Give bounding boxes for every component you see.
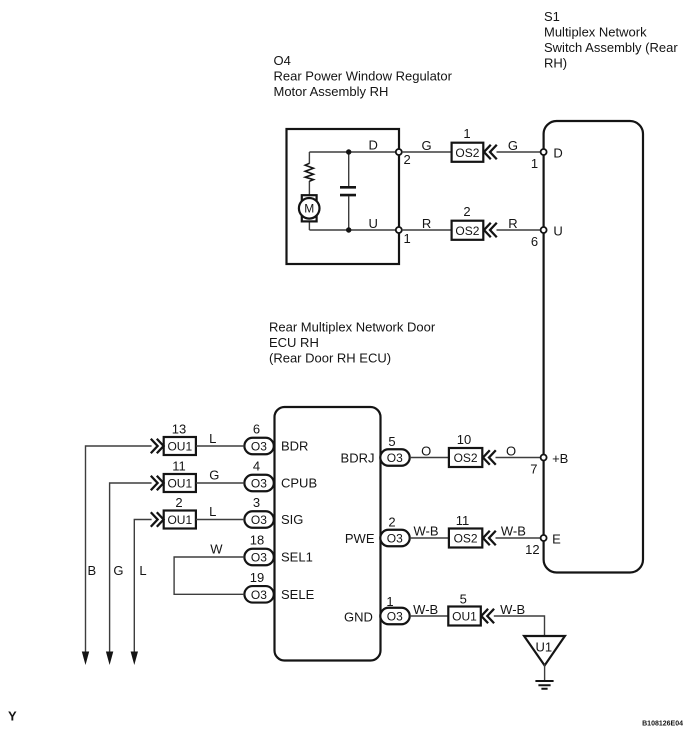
svg-text:L: L — [209, 504, 216, 519]
svg-text:O3: O3 — [387, 451, 403, 465]
svg-text:W-B: W-B — [413, 524, 438, 539]
motor M — [299, 195, 320, 221]
svg-text:OU1: OU1 — [167, 440, 192, 454]
svg-text:12: 12 — [525, 542, 539, 557]
chevrons OU1 no.2 — [152, 513, 164, 526]
svg-text:OS2: OS2 — [454, 451, 478, 465]
svg-text:BDR: BDR — [281, 439, 308, 454]
terminal +B of S1 — [541, 455, 547, 461]
svg-text:OS2: OS2 — [454, 532, 478, 546]
svg-text:Y: Y — [8, 709, 17, 724]
wire O right — [496, 457, 541, 459]
pin 1 O3 GND — [380, 608, 409, 625]
svg-text:D: D — [553, 146, 562, 161]
svg-text:M: M — [304, 202, 314, 216]
svg-text:OU1: OU1 — [167, 477, 192, 491]
splice OS2 no.10 — [449, 448, 482, 467]
label O4 title — [274, 53, 453, 99]
svg-text:B: B — [87, 563, 96, 578]
wire O left — [410, 457, 449, 459]
svg-text:S1: S1 — [544, 9, 560, 24]
svg-text:SELE: SELE — [281, 587, 315, 602]
svg-text:10: 10 — [457, 432, 471, 447]
svg-text:13: 13 — [172, 422, 186, 437]
svg-text:19: 19 — [250, 570, 264, 585]
wire G drop — [110, 483, 152, 652]
ground symbol — [535, 681, 553, 689]
arrow B — [82, 652, 89, 666]
wire U internal — [309, 229, 396, 231]
svg-text:2: 2 — [175, 495, 182, 510]
pin 6 O3 BDR — [244, 438, 273, 455]
svg-text:2: 2 — [388, 515, 395, 530]
svg-text:PWE: PWE — [345, 531, 375, 546]
svg-text:SEL1: SEL1 — [281, 550, 313, 565]
svg-text:1: 1 — [531, 156, 538, 171]
terminal 1 of O4 — [396, 227, 402, 233]
wire W-B right PWE — [496, 537, 541, 539]
svg-text:SIG: SIG — [281, 512, 303, 527]
svg-text:W: W — [210, 542, 223, 557]
svg-text:Motor Assembly RH: Motor Assembly RH — [274, 84, 389, 99]
svg-text:11: 11 — [456, 513, 470, 528]
wire G row2 — [196, 482, 245, 484]
svg-text:Rear Power Window Regulator: Rear Power Window Regulator — [274, 69, 453, 84]
terminal U of S1 — [541, 227, 547, 233]
svg-text:G: G — [113, 563, 123, 578]
svg-text:O: O — [421, 444, 431, 459]
svg-text:ECU RH: ECU RH — [269, 335, 319, 350]
junction dot D — [346, 149, 351, 154]
splice OS2 no.11 — [449, 529, 482, 548]
splice OS2 no.1 — [452, 143, 484, 162]
svg-text:O3: O3 — [251, 551, 267, 565]
svg-text:2: 2 — [404, 152, 411, 167]
pin 4 O3 CPUB — [244, 475, 273, 492]
svg-text:D: D — [369, 138, 378, 153]
svg-text:B108126E04: B108126E04 — [642, 721, 683, 728]
svg-text:G: G — [209, 468, 219, 483]
splice OU1 no.13 — [164, 437, 196, 455]
svg-text:OU1: OU1 — [452, 610, 477, 624]
wire W-B right GND — [494, 616, 545, 636]
wire SEL1-SELE loop — [174, 557, 244, 594]
chevrons OS2 no.10 — [483, 451, 495, 464]
svg-text:G: G — [422, 138, 432, 153]
terminal E of S1 — [541, 535, 547, 541]
pin 3 O3 SIG — [244, 511, 273, 528]
svg-text:O4: O4 — [274, 53, 291, 68]
svg-text:11: 11 — [172, 459, 186, 474]
svg-text:W-B: W-B — [501, 524, 526, 539]
label ECU title — [269, 320, 436, 366]
wire G right — [497, 151, 541, 153]
wire L drop — [134, 520, 151, 653]
connector O4 box — [287, 129, 400, 264]
chevrons OS2 no.1 — [484, 146, 496, 159]
svg-text:O: O — [506, 444, 516, 459]
arrow L — [131, 652, 138, 666]
wire L row1 — [196, 445, 245, 447]
svg-text:L: L — [209, 431, 216, 446]
wire left branch — [308, 152, 310, 230]
terminal D of S1 — [541, 149, 547, 155]
svg-text:OS2: OS2 — [455, 146, 479, 160]
svg-text:GND: GND — [344, 610, 373, 625]
svg-text:U1: U1 — [535, 640, 552, 655]
resistor — [305, 163, 313, 181]
svg-text:W-B: W-B — [500, 602, 525, 617]
svg-text:7: 7 — [530, 462, 537, 477]
svg-text:+B: +B — [552, 451, 568, 466]
svg-text:3: 3 — [253, 495, 260, 510]
svg-text:(Rear Door RH ECU): (Rear Door RH ECU) — [269, 351, 391, 366]
svg-text:U: U — [369, 216, 378, 231]
svg-text:CPUB: CPUB — [281, 476, 317, 491]
junction dot U — [346, 227, 351, 232]
capacitor branch wire — [348, 152, 350, 230]
svg-text:BDRJ: BDRJ — [341, 451, 375, 466]
svg-text:18: 18 — [250, 533, 264, 548]
label S1 title — [544, 9, 678, 71]
svg-text:5: 5 — [460, 592, 467, 607]
wire L row3 — [196, 519, 245, 521]
connector S1 box — [544, 121, 643, 573]
svg-text:RH): RH) — [544, 56, 567, 71]
svg-text:1: 1 — [386, 594, 393, 609]
wire W-B left GND — [410, 615, 449, 617]
terminal 2 of O4 — [396, 149, 402, 155]
svg-text:4: 4 — [253, 459, 260, 474]
wire G left — [402, 151, 452, 153]
svg-text:OS2: OS2 — [455, 224, 479, 238]
svg-text:W-B: W-B — [413, 602, 438, 617]
svg-text:R: R — [508, 216, 517, 231]
ground point U1 triangle — [524, 636, 565, 666]
svg-text:O3: O3 — [251, 513, 267, 527]
chevrons OS2 no.11 — [483, 532, 495, 545]
wire W-B left PWE — [410, 537, 449, 539]
svg-text:Rear Multiplex Network Door: Rear Multiplex Network Door — [269, 320, 436, 335]
svg-text:O3: O3 — [251, 440, 267, 454]
splice OU1 no.2 — [164, 511, 196, 529]
svg-text:U: U — [553, 224, 562, 239]
svg-text:Switch Assembly (Rear: Switch Assembly (Rear — [544, 40, 678, 55]
svg-text:2: 2 — [463, 204, 470, 219]
splice OS2 no.2 — [452, 221, 484, 240]
svg-text:Multiplex Network: Multiplex Network — [544, 25, 647, 40]
capacitor C — [340, 187, 356, 195]
svg-text:L: L — [139, 563, 146, 578]
arrow G — [106, 652, 113, 666]
svg-text:6: 6 — [253, 422, 260, 437]
svg-text:E: E — [552, 532, 561, 547]
svg-text:O3: O3 — [387, 610, 403, 624]
wire R left — [402, 229, 452, 231]
chevrons OU1 no.5 — [481, 610, 493, 623]
svg-text:G: G — [508, 138, 518, 153]
wire U1 to ground — [544, 664, 546, 681]
svg-text:5: 5 — [388, 434, 395, 449]
connector ECU box — [275, 407, 381, 661]
wire D internal — [309, 151, 396, 153]
chevrons OS2 no.2 — [484, 224, 496, 237]
svg-text:O3: O3 — [251, 477, 267, 491]
chevrons OU1 no.13 — [152, 440, 164, 453]
wire R right — [497, 229, 541, 231]
svg-text:OU1: OU1 — [167, 513, 192, 527]
pin 5 O3 BDRJ — [380, 449, 409, 466]
svg-text:1: 1 — [463, 126, 470, 141]
splice OU1 no.11 — [164, 474, 196, 492]
pin 19 O3 SELE — [244, 586, 273, 603]
svg-text:6: 6 — [531, 234, 538, 249]
chevrons OU1 no.11 — [152, 477, 164, 490]
svg-text:O3: O3 — [251, 588, 267, 602]
wire B drop — [86, 446, 152, 652]
pin 18 O3 SEL1 — [244, 549, 273, 566]
splice OU1 no.5 — [448, 607, 481, 626]
pin 2 O3 PWE — [380, 530, 409, 547]
svg-text:R: R — [422, 216, 431, 231]
svg-text:1: 1 — [404, 231, 411, 246]
svg-text:O3: O3 — [387, 532, 403, 546]
